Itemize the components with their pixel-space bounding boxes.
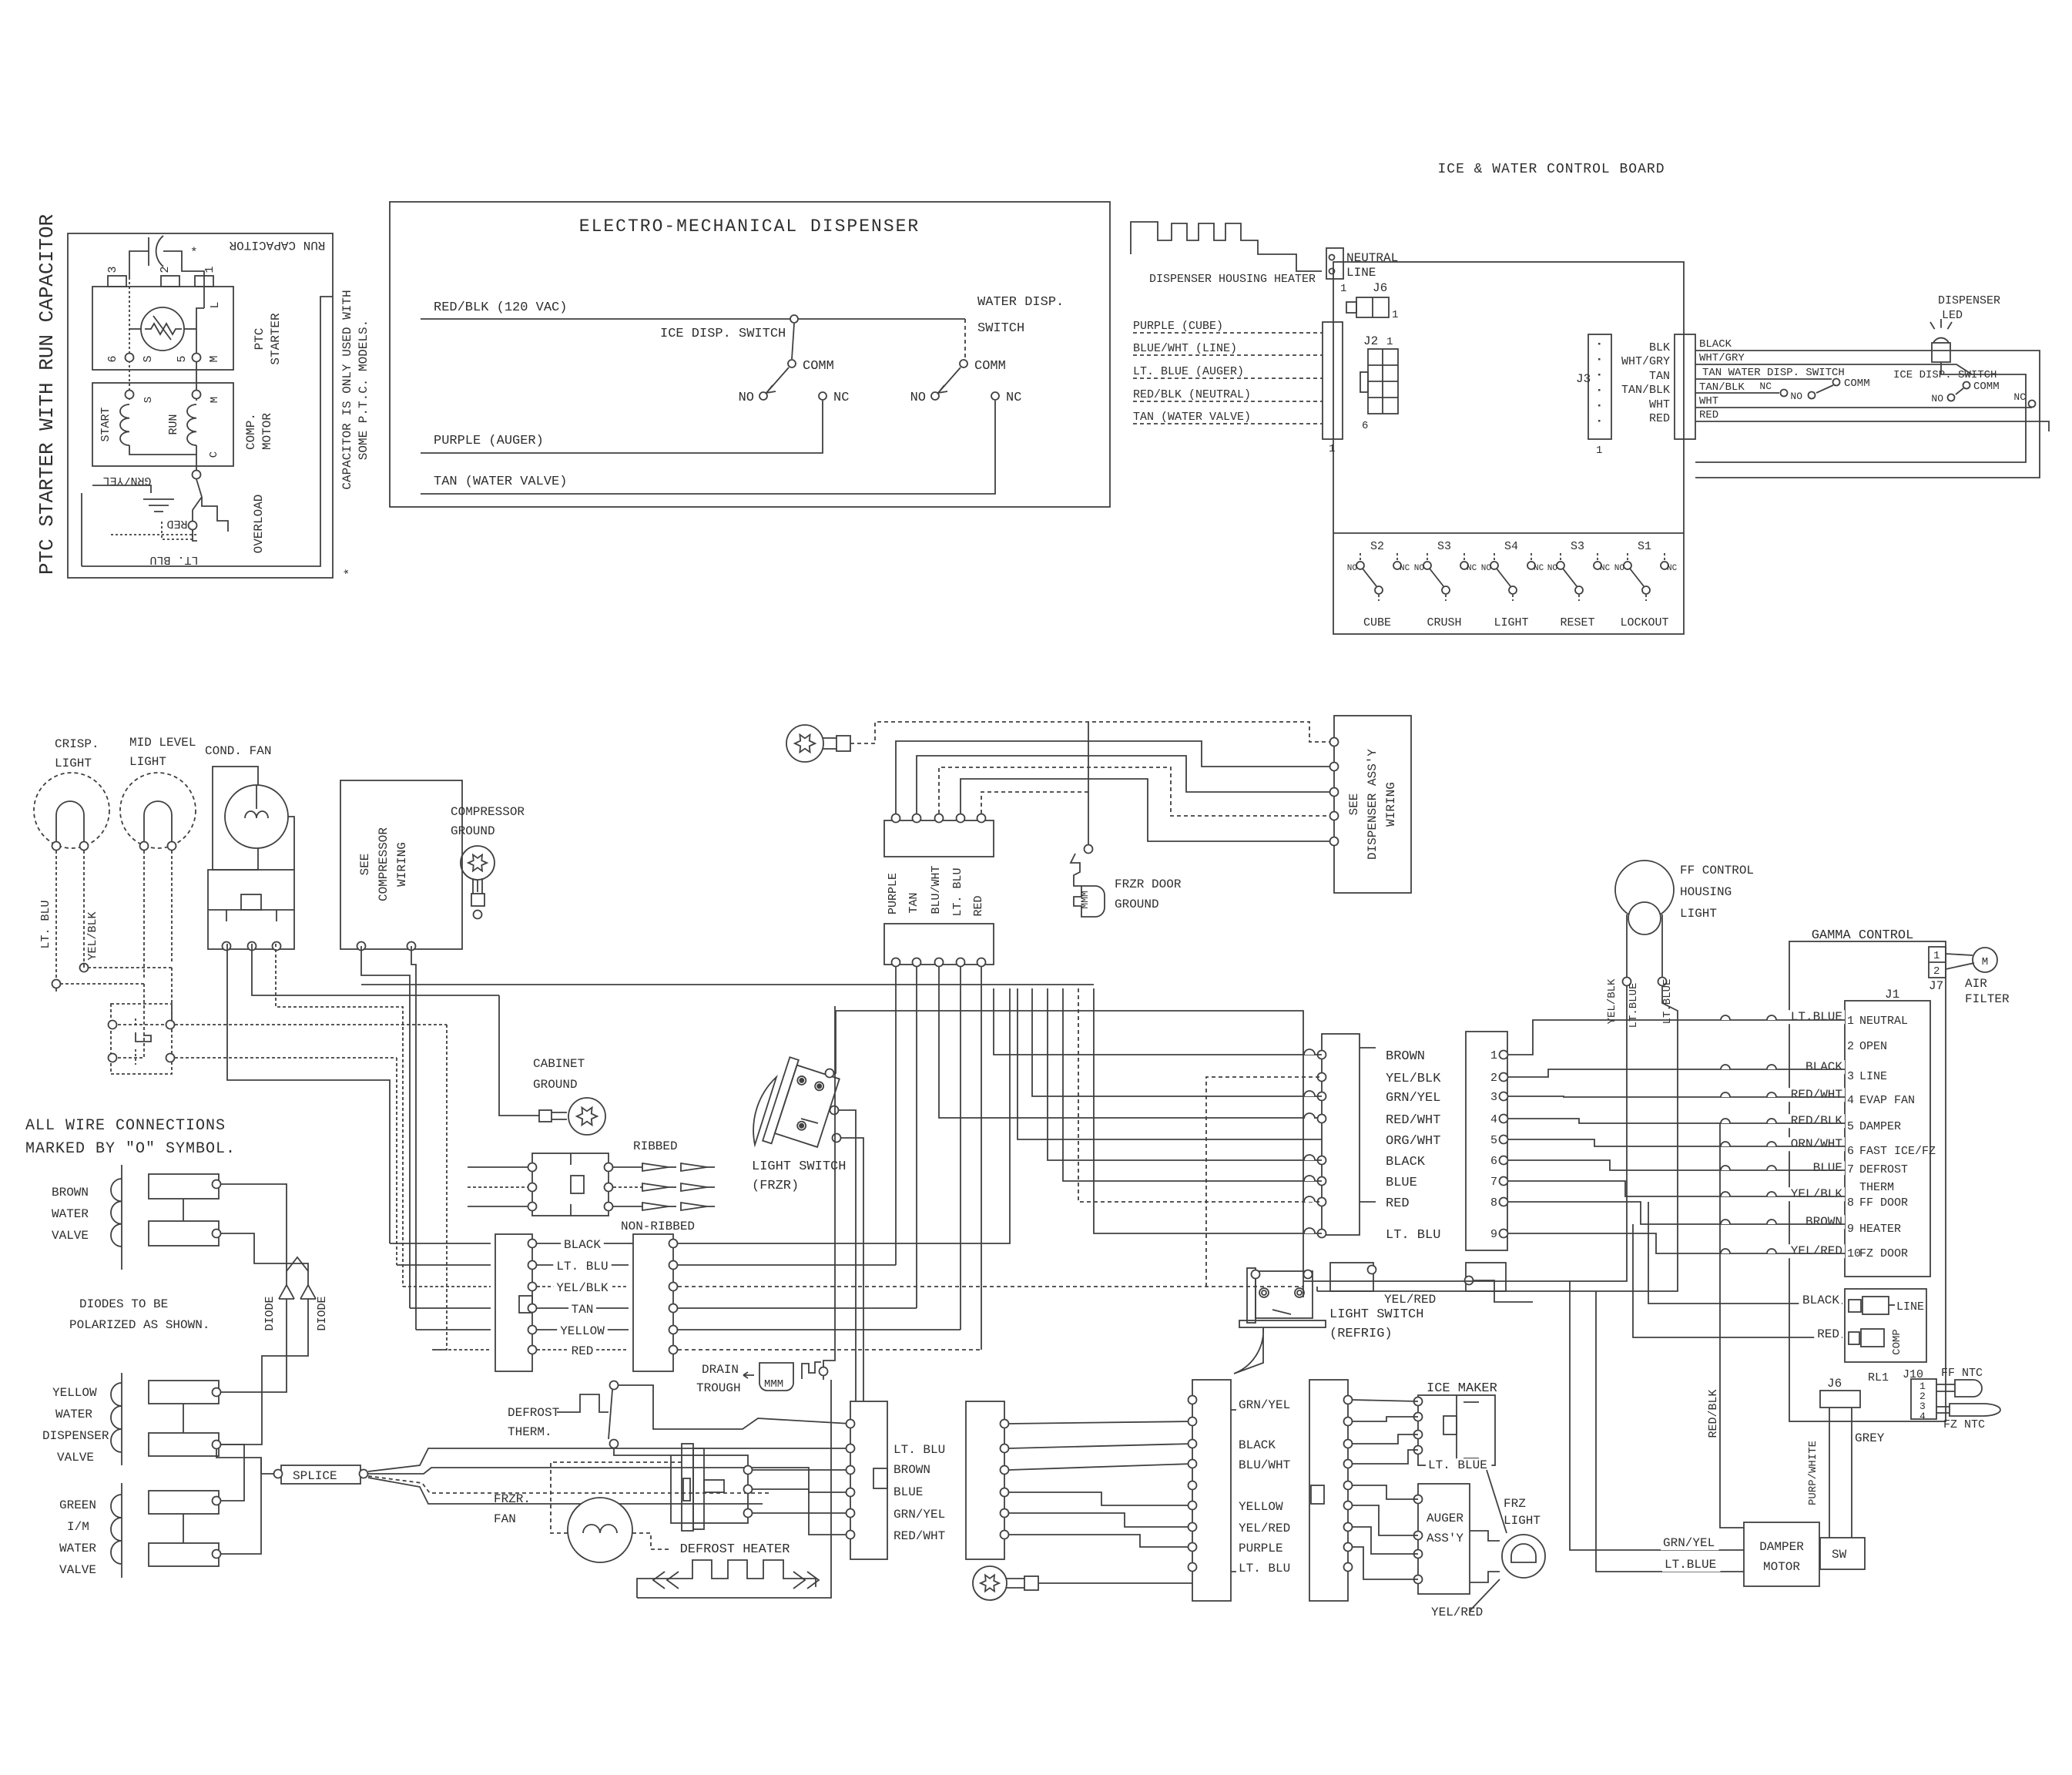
svg-text:3: 3 (1847, 1070, 1854, 1083)
svg-text:MID LEVEL: MID LEVEL (129, 736, 196, 750)
svg-text:NC: NC (1400, 564, 1410, 573)
svg-text:YEL/RED: YEL/RED (1239, 1522, 1290, 1535)
svg-text:FF NTC: FF NTC (1941, 1367, 1983, 1380)
svg-text:9: 9 (1490, 1228, 1497, 1241)
svg-text:DIODES TO BE: DIODES TO BE (79, 1297, 168, 1311)
svg-text:3: 3 (106, 266, 119, 273)
svg-text:M: M (209, 397, 221, 403)
svg-text:NO: NO (1931, 393, 1943, 404)
svg-text:J6: J6 (1373, 281, 1387, 295)
svg-text:YEL/BLK: YEL/BLK (1386, 1072, 1441, 1086)
svg-text:RED: RED (1649, 412, 1670, 425)
svg-text:8: 8 (1847, 1196, 1854, 1210)
svg-text:RED: RED (1699, 409, 1718, 421)
svg-text:NEUTRAL: NEUTRAL (1346, 251, 1398, 265)
svg-text:PTC: PTC (253, 328, 267, 351)
svg-text:PTC STARTER WITH RUN CAPACITOR: PTC STARTER WITH RUN CAPACITOR (35, 214, 59, 575)
svg-text:DIODE: DIODE (263, 1296, 277, 1330)
svg-text:ICE MAKER: ICE MAKER (1427, 1381, 1497, 1396)
svg-text:LIGHT: LIGHT (55, 757, 92, 770)
svg-text:(REFRIG): (REFRIG) (1329, 1327, 1393, 1341)
svg-text:S2: S2 (1370, 540, 1384, 553)
svg-text:WHT/GRY: WHT/GRY (1699, 352, 1745, 364)
svg-text:7: 7 (1847, 1163, 1854, 1176)
svg-text:BROWN: BROWN (1805, 1215, 1842, 1229)
svg-text:S3: S3 (1437, 540, 1451, 553)
svg-text:2: 2 (1933, 965, 1940, 978)
svg-text:BLACK: BLACK (1805, 1060, 1842, 1074)
svg-text:NC: NC (2013, 391, 2026, 403)
svg-text:NO: NO (1614, 564, 1625, 573)
svg-text:1: 1 (1933, 950, 1940, 962)
svg-text:NO: NO (910, 391, 926, 405)
svg-text:COMM: COMM (1973, 381, 2000, 393)
svg-text:NO: NO (1481, 564, 1492, 573)
svg-text:LT.BLUE: LT.BLUE (1661, 979, 1674, 1025)
svg-text:*: * (343, 568, 357, 575)
svg-text:NC: NC (833, 391, 849, 405)
svg-text:MMM: MMM (1079, 891, 1091, 908)
svg-text:BROWN: BROWN (52, 1186, 89, 1200)
svg-text:LT. BLU: LT. BLU (1239, 1562, 1290, 1575)
svg-text:YEL/BLK: YEL/BLK (86, 911, 99, 960)
svg-text:BROWN: BROWN (894, 1463, 930, 1477)
svg-text:RL1: RL1 (1868, 1371, 1889, 1384)
svg-text:PURPLE: PURPLE (887, 873, 900, 914)
svg-text:1: 1 (1386, 336, 1393, 348)
svg-text:START: START (99, 407, 112, 441)
svg-text:ASS'Y: ASS'Y (1427, 1532, 1463, 1545)
svg-text:RESET: RESET (1560, 616, 1594, 629)
svg-text:BLACK: BLACK (1239, 1438, 1276, 1452)
svg-text:FRZ: FRZ (1504, 1497, 1526, 1511)
svg-text:MARKED BY "O" SYMBOL.: MARKED BY "O" SYMBOL. (25, 1140, 236, 1158)
svg-text:2: 2 (1490, 1072, 1497, 1085)
svg-text:YEL/BLK: YEL/BLK (1606, 978, 1618, 1024)
svg-text:GROUND: GROUND (533, 1078, 578, 1092)
svg-text:LIGHT: LIGHT (1504, 1514, 1541, 1528)
svg-text:SW: SW (1832, 1548, 1847, 1562)
svg-text:J6: J6 (1827, 1377, 1842, 1391)
svg-text:DEFROST: DEFROST (1859, 1163, 1908, 1176)
svg-text:MMM: MMM (764, 1378, 783, 1391)
svg-text:1: 1 (1847, 1015, 1854, 1028)
svg-text:TAN/BLK: TAN/BLK (1699, 381, 1745, 394)
svg-text:LINE: LINE (1346, 266, 1376, 280)
svg-text:MOTOR: MOTOR (1763, 1560, 1800, 1574)
svg-text:GREY: GREY (1855, 1431, 1885, 1445)
svg-text:TAN/BLK: TAN/BLK (1621, 384, 1670, 397)
svg-text:LT. BLU: LT. BLU (149, 553, 198, 566)
svg-text:COMM: COMM (1844, 377, 1870, 390)
svg-text:GRN/YEL: GRN/YEL (1386, 1091, 1440, 1106)
svg-text:BLACK: BLACK (564, 1238, 601, 1252)
svg-text:YEL/RED: YEL/RED (1384, 1293, 1436, 1307)
svg-text:FAN: FAN (494, 1512, 516, 1526)
svg-text:FF DOOR: FF DOOR (1859, 1196, 1908, 1210)
svg-text:COMPRESSOR: COMPRESSOR (377, 827, 391, 901)
svg-text:5: 5 (1490, 1134, 1497, 1147)
svg-text:BLU/WHT: BLU/WHT (1239, 1458, 1290, 1472)
svg-text:LINE: LINE (1859, 1070, 1887, 1083)
svg-text:1: 1 (1596, 445, 1602, 457)
svg-text:NO: NO (1790, 391, 1802, 402)
svg-text:PURPLE: PURPLE (1239, 1542, 1283, 1555)
svg-text:AUGER: AUGER (1427, 1512, 1463, 1525)
svg-text:GROUND: GROUND (1115, 898, 1159, 911)
svg-text:COMM: COMM (974, 359, 1006, 374)
svg-text:2: 2 (1847, 1040, 1854, 1053)
svg-text:*: * (190, 246, 198, 260)
svg-text:3: 3 (1490, 1091, 1497, 1104)
svg-text:CUBE: CUBE (1363, 616, 1391, 629)
svg-text:POLARIZED AS SHOWN.: POLARIZED AS SHOWN. (69, 1318, 210, 1332)
svg-text:FRZR.: FRZR. (494, 1492, 531, 1506)
svg-text:LIGHT: LIGHT (1680, 907, 1717, 921)
svg-text:L: L (209, 301, 222, 308)
svg-text:DEFROST HEATER: DEFROST HEATER (680, 1542, 790, 1557)
svg-text:1: 1 (1329, 443, 1335, 455)
svg-text:WHT: WHT (1699, 395, 1718, 408)
svg-text:SEE: SEE (358, 854, 372, 876)
svg-text:BLUE: BLUE (894, 1485, 923, 1499)
svg-text:LT.BLUE: LT.BLUE (1665, 1558, 1716, 1572)
svg-text:WATER: WATER (59, 1542, 96, 1555)
svg-text:YEL/RED: YEL/RED (1791, 1244, 1842, 1258)
svg-text:VALVE: VALVE (57, 1451, 94, 1465)
svg-text:YELLOW: YELLOW (1239, 1500, 1283, 1514)
svg-text:LT. BLU: LT. BLU (894, 1443, 945, 1457)
svg-text:S3: S3 (1571, 540, 1584, 553)
svg-text:RED/WHT: RED/WHT (894, 1529, 945, 1543)
svg-text:ELECTRO-MECHANICAL DISPENSER: ELECTRO-MECHANICAL DISPENSER (579, 216, 920, 237)
svg-text:CRUSH: CRUSH (1427, 616, 1461, 629)
svg-text:DEFROST: DEFROST (508, 1406, 559, 1420)
svg-text:4: 4 (1847, 1094, 1854, 1107)
svg-text:PURP/WHITE: PURP/WHITE (1807, 1441, 1819, 1505)
svg-text:S: S (142, 397, 155, 403)
svg-text:SOME P.T.C. MODELS.: SOME P.T.C. MODELS. (357, 320, 370, 460)
svg-text:GRN/YEL: GRN/YEL (1663, 1536, 1715, 1550)
svg-text:RED: RED (166, 517, 187, 530)
svg-text:CABINET: CABINET (533, 1057, 585, 1071)
svg-text:SWITCH: SWITCH (977, 321, 1024, 336)
svg-text:5: 5 (176, 355, 189, 362)
svg-text:DIODE: DIODE (316, 1296, 329, 1330)
svg-text:THERM: THERM (1859, 1181, 1894, 1194)
svg-text:WATER DISP.: WATER DISP. (977, 295, 1064, 310)
svg-text:ICE DISP. SWITCH: ICE DISP. SWITCH (1893, 369, 1997, 381)
svg-text:NC: NC (1600, 564, 1611, 573)
svg-text:LINE: LINE (1896, 1300, 1924, 1314)
svg-text:GREEN: GREEN (59, 1498, 96, 1512)
svg-text:ICE & WATER CONTROL BOARD: ICE & WATER CONTROL BOARD (1437, 162, 1665, 177)
svg-text:NC: NC (1534, 564, 1544, 573)
svg-text:RUN CAPACITOR: RUN CAPACITOR (229, 238, 325, 252)
svg-text:ORN/WHT: ORN/WHT (1791, 1137, 1842, 1151)
svg-text:RED: RED (1386, 1196, 1410, 1211)
svg-text:6: 6 (1490, 1155, 1497, 1168)
svg-text:BLUE: BLUE (1813, 1161, 1842, 1175)
svg-text:GROUND: GROUND (451, 824, 495, 838)
svg-text:SEE: SEE (1347, 794, 1361, 816)
svg-text:TAN: TAN (907, 892, 920, 913)
svg-text:LT. BLU: LT. BLU (951, 867, 964, 916)
svg-text:YEL/BLK: YEL/BLK (1791, 1187, 1843, 1201)
svg-text:RED: RED (972, 895, 985, 916)
svg-text:M: M (1982, 956, 1988, 968)
svg-text:LED: LED (1942, 309, 1963, 322)
svg-text:LOCKOUT: LOCKOUT (1620, 616, 1668, 629)
svg-text:LT. BLU: LT. BLU (39, 900, 52, 948)
svg-text:6: 6 (106, 355, 119, 362)
svg-text:YELLOW: YELLOW (52, 1386, 97, 1400)
svg-text:LIGHT SWITCH: LIGHT SWITCH (1329, 1307, 1423, 1322)
svg-text:RED: RED (572, 1344, 594, 1358)
svg-text:PURPLE (CUBE): PURPLE (CUBE) (1133, 320, 1223, 333)
svg-text:VALVE: VALVE (59, 1563, 96, 1577)
svg-text:COMPRESSOR: COMPRESSOR (451, 805, 525, 819)
svg-text:WATER: WATER (52, 1207, 89, 1221)
svg-text:BLACK: BLACK (1699, 338, 1732, 351)
svg-text:C: C (208, 451, 220, 458)
svg-text:FRZR DOOR: FRZR DOOR (1115, 877, 1182, 891)
svg-text:LT.BLUE: LT.BLUE (1628, 983, 1640, 1028)
svg-text:WHT: WHT (1649, 398, 1670, 411)
svg-text:STARTER: STARTER (269, 313, 283, 365)
svg-text:NC: NC (1467, 564, 1477, 573)
svg-text:BLU/WHT: BLU/WHT (930, 865, 943, 914)
svg-text:NC: NC (1759, 381, 1772, 392)
svg-text:RUN: RUN (167, 414, 180, 435)
svg-text:VALVE: VALVE (52, 1229, 89, 1243)
svg-text:TROUGH: TROUGH (696, 1381, 741, 1395)
svg-text:FILTER: FILTER (1965, 992, 2010, 1006)
svg-text:7: 7 (1490, 1176, 1497, 1189)
svg-text:DAMPER: DAMPER (1859, 1120, 1901, 1133)
svg-text:TAN (WATER VALVE): TAN (WATER VALVE) (1133, 411, 1251, 424)
svg-text:I/M: I/M (67, 1520, 89, 1534)
svg-text:TAN (WATER VALVE): TAN (WATER VALVE) (434, 475, 567, 489)
svg-text:LT. BLU: LT. BLU (1386, 1228, 1440, 1243)
svg-text:4: 4 (1919, 1411, 1926, 1422)
svg-text:J7: J7 (1929, 979, 1943, 993)
svg-text:1: 1 (1392, 309, 1398, 321)
svg-text:PURPLE (AUGER): PURPLE (AUGER) (434, 434, 544, 448)
svg-text:OPEN: OPEN (1859, 1040, 1887, 1053)
svg-text:S4: S4 (1504, 540, 1518, 553)
svg-text:RED: RED (1817, 1327, 1839, 1341)
svg-text:THERM.: THERM. (508, 1425, 552, 1439)
svg-text:M: M (208, 355, 221, 362)
svg-text:YELLOW: YELLOW (560, 1324, 605, 1338)
svg-text:6: 6 (1362, 420, 1368, 432)
svg-text:BROWN: BROWN (1386, 1049, 1425, 1064)
svg-text:TAN: TAN (572, 1303, 594, 1317)
svg-text:MOTOR: MOTOR (260, 413, 274, 450)
svg-text:FZ DOOR: FZ DOOR (1859, 1247, 1908, 1260)
svg-text:DISPENSER: DISPENSER (42, 1429, 109, 1443)
svg-text:LT. BLUE (AUGER): LT. BLUE (AUGER) (1133, 365, 1244, 378)
svg-text:9: 9 (1847, 1223, 1854, 1236)
svg-text:6: 6 (1847, 1145, 1854, 1158)
svg-text:TAN WATER DISP. SWITCH: TAN WATER DISP. SWITCH (1702, 367, 1845, 379)
svg-text:AIR: AIR (1965, 977, 1987, 991)
svg-text:BLACK: BLACK (1802, 1294, 1839, 1307)
svg-text:BLK: BLK (1649, 341, 1670, 354)
svg-text:COMM: COMM (803, 359, 834, 374)
svg-text:FZ NTC: FZ NTC (1943, 1418, 1985, 1431)
svg-text:1: 1 (1340, 283, 1346, 295)
svg-text:COND. FAN: COND. FAN (205, 744, 271, 758)
svg-text:NO: NO (1347, 564, 1358, 573)
svg-text:ORG/WHT: ORG/WHT (1386, 1134, 1440, 1149)
svg-text:4: 4 (1490, 1113, 1497, 1126)
svg-text:NO: NO (739, 391, 754, 405)
svg-text:1: 1 (203, 266, 216, 273)
svg-text:LIGHT: LIGHT (129, 755, 166, 769)
svg-text:HOUSING: HOUSING (1680, 885, 1732, 899)
svg-text:NO: NO (1547, 564, 1558, 573)
svg-text:WATER: WATER (55, 1408, 92, 1421)
svg-text:RED/WHT: RED/WHT (1386, 1113, 1440, 1128)
svg-text:(FRZR): (FRZR) (752, 1179, 799, 1193)
svg-text:CAPACITOR IS ONLY USED WITH: CAPACITOR IS ONLY USED WITH (340, 290, 354, 489)
svg-text:GRN/YEL: GRN/YEL (1239, 1398, 1290, 1412)
svg-text:YEL/BLK: YEL/BLK (556, 1281, 609, 1295)
svg-text:CRISP.: CRISP. (55, 737, 99, 751)
svg-text:LT. BLU: LT. BLU (556, 1260, 608, 1273)
svg-text:NON-RIBBED: NON-RIBBED (621, 1220, 695, 1233)
svg-text:J1: J1 (1885, 988, 1899, 1002)
svg-text:1: 1 (1490, 1049, 1497, 1062)
svg-text:5: 5 (1847, 1120, 1854, 1133)
svg-text:RED/BLK (NEUTRAL): RED/BLK (NEUTRAL) (1133, 388, 1251, 401)
svg-text:DISPENSER HOUSING HEATER: DISPENSER HOUSING HEATER (1149, 273, 1316, 286)
svg-text:RED/BLK: RED/BLK (1791, 1114, 1843, 1128)
svg-text:WIRING: WIRING (395, 842, 409, 887)
svg-text:DAMPER: DAMPER (1759, 1540, 1804, 1554)
svg-text:LT.BLUE: LT.BLUE (1791, 1010, 1842, 1024)
svg-text:S: S (142, 355, 155, 362)
svg-text:DISPENSER ASS'Y: DISPENSER ASS'Y (1366, 749, 1380, 860)
svg-text:EVAP FAN: EVAP FAN (1859, 1094, 1915, 1107)
svg-text:LT. BLUE: LT. BLUE (1428, 1458, 1487, 1472)
svg-text:LIGHT: LIGHT (1494, 616, 1528, 629)
svg-text:S1: S1 (1638, 540, 1651, 553)
svg-text:NC: NC (1006, 391, 1021, 405)
svg-text:RED/WHT: RED/WHT (1791, 1088, 1842, 1102)
svg-text:BLACK: BLACK (1386, 1155, 1426, 1169)
svg-text:8: 8 (1490, 1196, 1497, 1210)
svg-text:DRAIN: DRAIN (702, 1363, 739, 1377)
svg-text:BLUE/WHT (LINE): BLUE/WHT (LINE) (1133, 342, 1237, 355)
svg-text:YEL/RED: YEL/RED (1431, 1606, 1483, 1619)
svg-text:ICE DISP. SWITCH: ICE DISP. SWITCH (660, 327, 786, 341)
svg-text:NO: NO (1414, 564, 1425, 573)
svg-text:RIBBED: RIBBED (633, 1139, 678, 1153)
svg-text:NC: NC (1667, 564, 1678, 573)
svg-text:ALL WIRE CONNECTIONS: ALL WIRE CONNECTIONS (25, 1117, 226, 1135)
svg-text:BLUE: BLUE (1386, 1176, 1417, 1190)
svg-text:DISPENSER: DISPENSER (1938, 294, 2000, 307)
svg-text:TAN: TAN (1649, 370, 1670, 383)
svg-text:COMP: COMP (1891, 1329, 1903, 1355)
svg-text:FAST ICE/FZ: FAST ICE/FZ (1859, 1145, 1936, 1158)
svg-text:RED/BLK: RED/BLK (1707, 1389, 1720, 1438)
svg-text:RED/BLK (120 VAC): RED/BLK (120 VAC) (434, 300, 567, 315)
svg-text:OVERLOAD: OVERLOAD (252, 495, 266, 554)
svg-text:SPLICE: SPLICE (293, 1469, 337, 1483)
svg-text:LIGHT SWITCH: LIGHT SWITCH (752, 1159, 846, 1174)
svg-text:2: 2 (159, 266, 172, 273)
svg-text:FF CONTROL: FF CONTROL (1680, 864, 1754, 877)
svg-text:J2: J2 (1363, 334, 1378, 348)
svg-text:WHT/GRY: WHT/GRY (1621, 355, 1670, 368)
svg-text:HEATER: HEATER (1859, 1223, 1901, 1236)
svg-text:NEUTRAL: NEUTRAL (1859, 1015, 1908, 1028)
svg-text:WIRING: WIRING (1384, 782, 1398, 827)
svg-text:GRN/YEL: GRN/YEL (894, 1508, 945, 1522)
svg-text:COMP.: COMP. (244, 413, 258, 450)
